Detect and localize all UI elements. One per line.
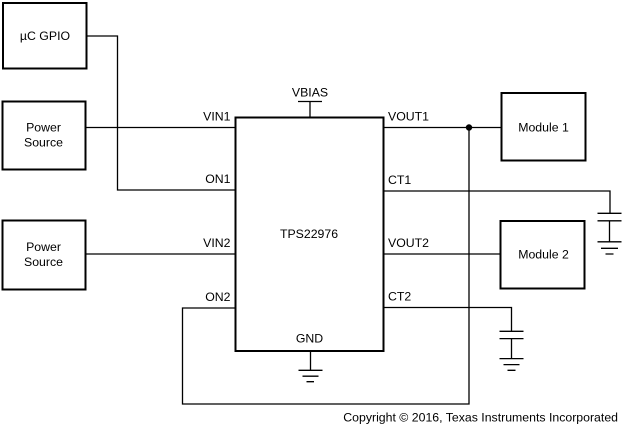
block Module 1 bbox=[502, 93, 586, 161]
wire Power Source 2 to VIN2 bbox=[86, 253, 236, 255]
svg-text:CT2: CT2 bbox=[388, 289, 411, 303]
svg-text:VIN1: VIN1 bbox=[203, 109, 230, 123]
wire uC GPIO to ON1 bbox=[87, 36, 236, 190]
svg-text:µC GPIO: µC GPIO bbox=[20, 29, 70, 43]
pin label VIN2 bbox=[203, 236, 230, 250]
svg-text:VOUT2: VOUT2 bbox=[388, 236, 429, 250]
svg-text:VBIAS: VBIAS bbox=[292, 86, 328, 100]
wire VOUT1 feedback to ON2 bbox=[183, 128, 470, 405]
wire GND pin to ground bbox=[310, 351, 312, 370]
block uC GPIO bbox=[3, 3, 87, 69]
wire CT2 to capacitor C2 bbox=[384, 308, 512, 332]
ground for C1 bbox=[598, 242, 622, 254]
pin label ON1 bbox=[205, 172, 230, 186]
capacitor C2 bbox=[500, 331, 524, 358]
svg-text:VOUT1: VOUT1 bbox=[388, 109, 429, 123]
svg-text:ON1: ON1 bbox=[205, 172, 230, 186]
junction dot on VOUT1 bbox=[466, 124, 472, 130]
svg-text:Power: Power bbox=[26, 240, 61, 254]
pin label CT1 bbox=[388, 173, 411, 187]
svg-text:Source: Source bbox=[24, 255, 63, 269]
IC U1 TPS22976 bbox=[236, 118, 384, 352]
block Power Source 2 bbox=[3, 221, 86, 290]
svg-text:GND: GND bbox=[296, 332, 323, 346]
svg-text:CT1: CT1 bbox=[388, 173, 411, 187]
wire VOUT1 to Module 1 bbox=[384, 127, 502, 129]
svg-text:TPS22976: TPS22976 bbox=[280, 227, 338, 241]
pin VBIAS tee bbox=[298, 102, 322, 118]
copyright note bbox=[343, 411, 618, 425]
pin label VOUT2 bbox=[388, 236, 429, 250]
svg-text:Source: Source bbox=[24, 135, 63, 149]
pin label VIN1 bbox=[203, 109, 230, 123]
svg-text:Copyright © 2016, Texas Instru: Copyright © 2016, Texas Instruments Inco… bbox=[343, 411, 618, 425]
svg-text:VIN2: VIN2 bbox=[203, 236, 230, 250]
ground for C2 bbox=[500, 359, 524, 371]
pin label GND bbox=[296, 332, 323, 346]
wire Power Source 1 to VIN1 bbox=[86, 127, 236, 129]
wire CT1 to capacitor C1 bbox=[384, 191, 611, 213]
svg-text:Power: Power bbox=[26, 120, 61, 134]
svg-text:ON2: ON2 bbox=[205, 290, 230, 304]
ground for GND pin bbox=[299, 370, 323, 381]
block Power Source 1 bbox=[3, 102, 86, 170]
pin label VBIAS bbox=[292, 86, 328, 100]
pin label VOUT1 bbox=[388, 109, 429, 123]
pin label ON2 bbox=[205, 290, 230, 304]
svg-text:Module 2: Module 2 bbox=[518, 247, 569, 261]
pin label CT2 bbox=[388, 289, 411, 303]
capacitor C1 bbox=[598, 213, 622, 242]
wire VOUT2 to Module 2 bbox=[384, 253, 501, 255]
svg-text:Module 1: Module 1 bbox=[518, 121, 569, 135]
block Module 2 bbox=[501, 221, 585, 289]
